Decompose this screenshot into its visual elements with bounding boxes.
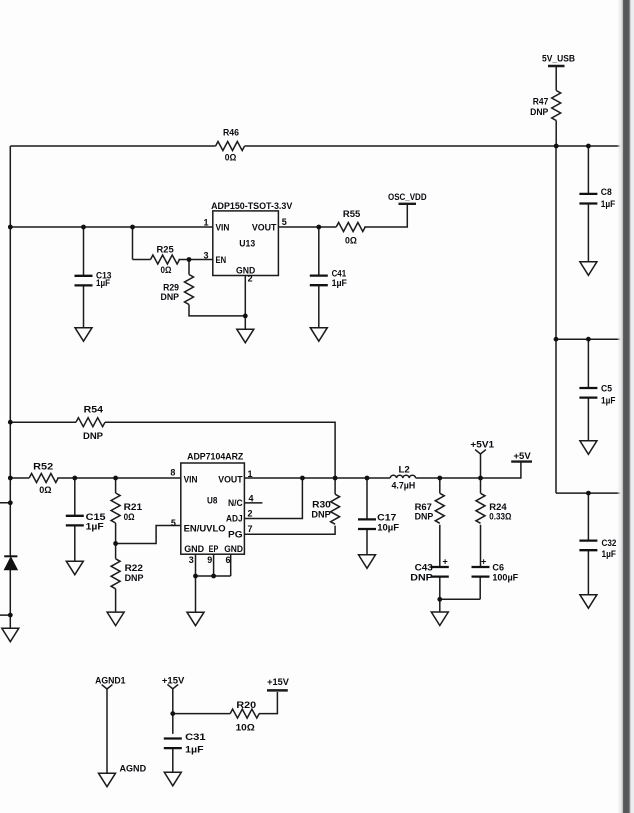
svg-text:8: 8 [170,468,175,478]
svg-text:100µF: 100µF [492,573,518,584]
svg-text:R46: R46 [223,127,239,138]
svg-text:AGND1: AGND1 [95,675,126,686]
svg-text:DNP: DNP [530,107,549,118]
svg-text:+: + [481,556,486,566]
svg-text:VOUT: VOUT [218,475,242,486]
svg-text:1µF: 1µF [601,395,616,406]
svg-text:0Ω: 0Ω [39,485,52,496]
svg-text:0Ω: 0Ω [124,512,135,523]
svg-text:0Ω: 0Ω [161,265,172,276]
svg-text:U8: U8 [207,496,217,507]
svg-text:1µF: 1µF [602,549,617,560]
svg-text:R55: R55 [343,209,361,220]
svg-text:R54: R54 [84,405,104,416]
svg-text:1µF: 1µF [601,199,616,210]
svg-text:ADJ: ADJ [226,514,243,525]
svg-text:2: 2 [248,509,253,519]
svg-text:C5: C5 [601,384,613,395]
svg-text:C8: C8 [601,187,612,198]
svg-text:4.7µH: 4.7µH [392,481,416,492]
svg-text:3: 3 [189,555,194,565]
svg-text:ADP150-TSOT-3.3V: ADP150-TSOT-3.3V [211,201,293,212]
svg-text:+15V: +15V [267,677,289,688]
svg-text:VIN: VIN [184,475,198,486]
svg-text:6: 6 [226,555,231,565]
svg-text:5: 5 [171,518,176,528]
svg-text:+15V: +15V [162,675,185,686]
svg-text:5V_USB: 5V_USB [542,54,575,65]
svg-text:10Ω: 10Ω [236,722,256,733]
svg-text:1: 1 [204,217,209,227]
svg-text:R25: R25 [157,245,175,256]
svg-text:5: 5 [282,217,287,227]
svg-text:L2: L2 [399,464,410,475]
svg-text:0Ω: 0Ω [225,152,237,163]
svg-text:R52: R52 [33,462,53,473]
svg-text:DNP: DNP [161,292,180,303]
svg-text:PG: PG [228,530,243,541]
svg-text:1µF: 1µF [185,744,204,755]
svg-text:7: 7 [248,524,253,534]
svg-text:+5V1: +5V1 [470,440,494,451]
svg-text:+5V: +5V [514,451,532,462]
svg-text:EN: EN [216,255,227,266]
svg-text:0Ω: 0Ω [345,236,357,247]
svg-text:10µF: 10µF [377,522,399,533]
svg-text:1µF: 1µF [96,278,110,289]
svg-text:C31: C31 [185,732,206,743]
svg-text:N/C: N/C [228,498,243,509]
svg-text:GND: GND [184,544,204,555]
svg-text:ADP7104ARZ: ADP7104ARZ [187,452,243,463]
svg-text:DNP: DNP [311,509,331,520]
svg-text:EP: EP [209,544,219,555]
svg-text:AGND: AGND [120,764,147,775]
svg-text:DNP: DNP [410,573,433,584]
svg-text:GND: GND [224,544,243,555]
svg-text:1µF: 1µF [332,278,347,289]
svg-text:+: + [443,556,448,566]
svg-text:DNP: DNP [83,431,104,442]
svg-text:DNP: DNP [415,511,434,522]
svg-text:9: 9 [207,555,212,565]
svg-text:C32: C32 [602,538,617,549]
svg-text:VIN: VIN [216,222,230,233]
svg-text:VOUT: VOUT [252,222,277,233]
svg-text:3: 3 [204,250,209,260]
svg-text:OSC_VDD: OSC_VDD [388,192,427,203]
svg-text:1µF: 1µF [86,522,104,533]
svg-text:U13: U13 [239,238,255,249]
svg-text:DNP: DNP [125,573,145,584]
svg-text:1: 1 [248,469,253,479]
svg-text:4: 4 [249,493,254,503]
svg-text:0.33Ω: 0.33Ω [489,511,511,522]
svg-text:R20: R20 [236,700,256,711]
svg-text:2: 2 [248,274,253,284]
svg-text:EN/UVLO: EN/UVLO [184,523,226,534]
